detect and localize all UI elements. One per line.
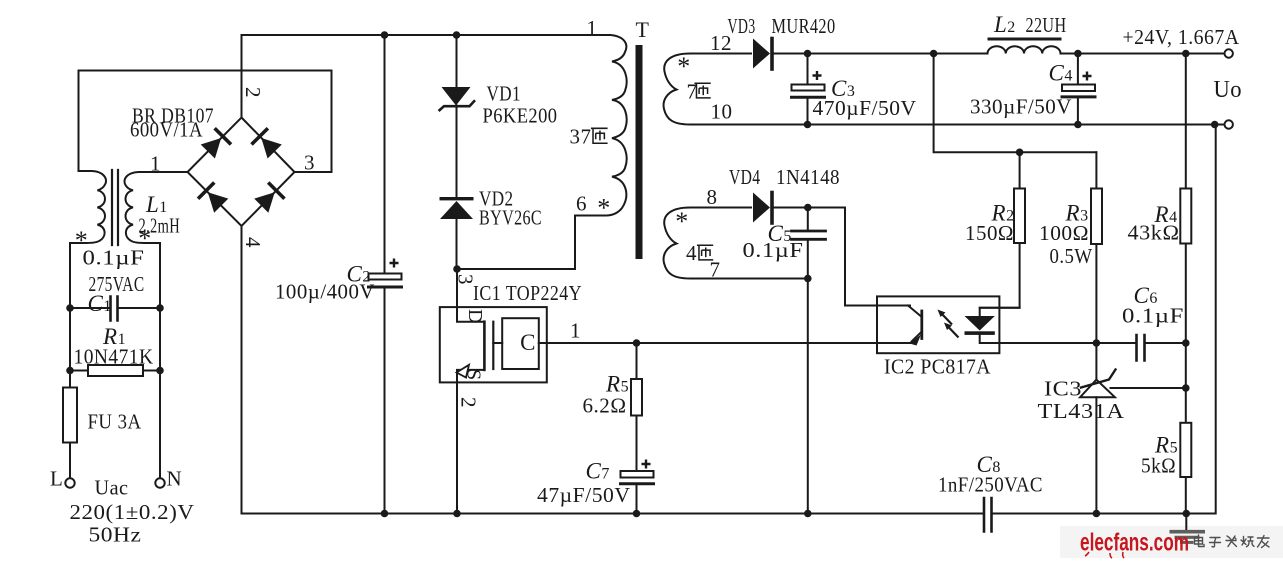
CJK logo char fa	[1226, 536, 1237, 547]
svg-text:37: 37	[570, 125, 592, 149]
plus sign C4	[1083, 72, 1092, 81]
diode VD3 triangle	[753, 39, 770, 69]
wire: IC1 pin1 control wire to optocoupler emitter	[539, 342, 910, 344]
svg-text:C: C	[520, 330, 536, 355]
diode VD3 cathode bar	[770, 39, 774, 70]
bridge diode top-right (pin3 to pin2)	[250, 127, 283, 160]
junction dot TL431 ref node	[1182, 384, 1190, 392]
capacitor C3 riser	[807, 54, 809, 125]
svg-text:*: *	[597, 194, 611, 223]
junction dot C3 top	[804, 50, 812, 58]
IC1 internal source lead	[457, 370, 484, 383]
svg-text:220(1±0.2)V: 220(1±0.2)V	[70, 500, 195, 524]
svg-text:100µ/400V: 100µ/400V	[275, 280, 375, 304]
wire: bias winding pin7 return drop to bottom rail	[807, 279, 809, 514]
IC2 phototransistor collector diagonal	[908, 306, 922, 318]
diode VD4 cathode bar	[770, 193, 774, 224]
CJK logo char dian	[1195, 535, 1205, 547]
TVS diode VD1 triangle	[442, 87, 471, 106]
wire: divider node riser R4 bottom to R5 top	[1185, 343, 1187, 423]
junction dot C4 top	[1074, 50, 1082, 58]
svg-text:MUR420: MUR420	[772, 14, 836, 38]
diode VD2 cathode bar	[440, 197, 474, 200]
svg-text:Uo: Uo	[1214, 77, 1243, 103]
svg-text:47µF/50V: 47µF/50V	[537, 483, 631, 507]
svg-text:L: L	[50, 467, 63, 491]
terminal Uo- circle	[1225, 120, 1233, 128]
transformer T core bar	[636, 45, 643, 259]
junction dot bottom rail IC1 pin2	[453, 510, 461, 518]
svg-text:2: 2	[457, 397, 481, 408]
svg-text:*: *	[75, 226, 89, 255]
resistor R2 body	[1014, 189, 1025, 244]
svg-text:6: 6	[576, 192, 587, 216]
CJK logo char zi	[1210, 538, 1221, 547]
svg-text:Uac: Uac	[95, 476, 129, 500]
IC1 pin2 source drop to bottom rail	[456, 382, 458, 513]
wire: bridge pin4 drop	[241, 226, 243, 514]
wire: primary top rail	[242, 34, 611, 36]
wire: VD1/VD2 clamp branch	[456, 35, 458, 269]
IC3 TL431A triangle	[1080, 380, 1115, 398]
junction dot bottom rail C2	[381, 510, 389, 518]
svg-text:43kΩ: 43kΩ	[1128, 221, 1180, 245]
svg-text:1N4148: 1N4148	[776, 165, 840, 189]
junction dot top rail C2	[381, 31, 389, 39]
junction dot pin6 row IC1 drain	[453, 265, 461, 273]
inductor L1 core lines	[112, 170, 118, 245]
37 turns CJK	[591, 128, 608, 143]
wire: +24V rail from L2 to terminal	[1061, 53, 1225, 55]
capacitor C1 plates	[111, 297, 118, 321]
wire: TL431 reference to divider	[1111, 387, 1186, 389]
svg-text:2: 2	[241, 87, 265, 98]
terminal L circle	[65, 478, 74, 487]
resistor R5 6.2ohm wires	[636, 343, 638, 514]
junction dot R2 top	[1016, 149, 1024, 157]
capacitor C3 negative plate	[792, 96, 825, 99]
svg-text:3: 3	[454, 274, 478, 285]
junction dot Uo- branch	[1211, 121, 1219, 129]
svg-text:22UH: 22UH	[1026, 13, 1067, 37]
wire: bottom primary rail (left of C8)	[242, 513, 984, 515]
CJK logo char you	[1258, 536, 1270, 548]
inductor L2 winding bumps	[988, 46, 1061, 53]
wire: input routing box top-left	[79, 71, 332, 173]
diode VD2 triangle	[440, 201, 473, 219]
resistor R4 body	[1180, 189, 1191, 244]
wire: Uo+ terminal stub	[1224, 53, 1226, 55]
wire: secondary top rail VD3 to L2	[774, 53, 988, 55]
wire: TL431 anode drop	[1095, 397, 1097, 513]
svg-text:4: 4	[686, 241, 697, 265]
svg-text:*: *	[138, 224, 152, 253]
bridge diode top-left (pin1 to pin2)	[200, 127, 233, 160]
svg-text:IC2 PC817A: IC2 PC817A	[884, 355, 991, 379]
IC1 source arrowhead (open)	[457, 365, 470, 378]
resistor R5 6.2ohm body	[631, 379, 642, 416]
IC2 phototransistor base bar	[920, 311, 923, 339]
resistor R3 body	[1091, 189, 1102, 245]
wire: LED anode feed from R2	[980, 308, 1020, 316]
svg-text:1: 1	[570, 319, 581, 343]
inductor L1 common-mode choke left winding	[70, 171, 106, 308]
svg-text:0.1µF: 0.1µF	[743, 238, 804, 262]
svg-text:IC1 TOP224Y: IC1 TOP224Y	[473, 281, 582, 305]
terminal N circle	[155, 478, 164, 487]
svg-text:VD4: VD4	[729, 165, 761, 189]
7 turns CJK	[694, 83, 710, 98]
junction dot C5 bottom pin7	[804, 275, 812, 283]
TVS diode VD1 zener bar	[439, 100, 475, 111]
wire: N line from C1 down to terminal	[159, 308, 161, 478]
junction dot TL431 cathode node	[1093, 339, 1101, 347]
svg-text:150Ω: 150Ω	[965, 221, 1014, 245]
capacitor C8 plates	[984, 498, 992, 532]
svg-text:FU 3A: FU 3A	[88, 410, 142, 434]
IC1 internal gate bar	[492, 322, 494, 369]
junction dot bottom rail bias return	[804, 510, 812, 518]
svg-text:0.5W: 0.5W	[1050, 244, 1093, 268]
svg-text:3: 3	[304, 151, 315, 175]
svg-text:12: 12	[710, 31, 732, 55]
transformer T primary winding 37 turns	[457, 35, 627, 269]
wire: TL431 cathode drop	[1095, 343, 1097, 380]
IC2 phototransistor emitter diagonal	[912, 332, 922, 342]
resistor R5 5k bottom wire	[1185, 477, 1187, 514]
wire: bridge pin2 riser to top rail	[241, 35, 243, 118]
capacitor C7 negative plate	[621, 482, 654, 485]
svg-text:100Ω: 100Ω	[1039, 221, 1089, 245]
svg-text:470µF/50V: 470µF/50V	[813, 96, 917, 120]
plus sign C3	[813, 71, 822, 80]
junction dot R1 right	[156, 367, 164, 375]
svg-text:330µF/50V: 330µF/50V	[970, 95, 1072, 119]
resistor R2 wires	[980, 152, 1020, 307]
IC2 light arrow 1	[938, 310, 953, 325]
transformer T secondary winding 7 turns	[664, 54, 1225, 125]
plus sign C7	[642, 460, 651, 469]
capacitor C4 riser	[1077, 54, 1079, 125]
capacitor C1 wires	[70, 307, 160, 309]
inductor L1 common-mode choke right winding	[125, 172, 188, 308]
ground stub	[1185, 514, 1187, 530]
ground symbol bars	[1170, 532, 1206, 543]
svg-text:elecfans.com: elecfans.com	[1080, 529, 1189, 557]
svg-text:*: *	[675, 207, 689, 236]
svg-text:IC3: IC3	[1044, 377, 1082, 401]
svg-text:T: T	[636, 17, 650, 42]
wire: R2 R3 feed riser from +24 rail	[934, 54, 1097, 153]
varistor R1 wires	[70, 370, 160, 372]
IC2 light arrow 2	[944, 323, 959, 338]
svg-text:VD1: VD1	[487, 82, 522, 106]
svg-text:10: 10	[711, 100, 733, 124]
svg-text:BYV26C: BYV26C	[479, 206, 542, 230]
optocoupler IC2 box	[877, 296, 999, 353]
wire: LED cathode to TL431 node	[980, 335, 1136, 343]
svg-text:1nF/250VAC: 1nF/250VAC	[938, 473, 1043, 497]
svg-text:50Hz: 50Hz	[89, 523, 142, 547]
capacitor C5 riser	[807, 208, 809, 279]
svg-text:600V/1A: 600V/1A	[130, 118, 203, 142]
IC2 emitter arrowhead	[910, 335, 922, 346]
bridge rectifier BR DB107 diamond	[188, 118, 295, 227]
svg-text:1: 1	[150, 152, 161, 176]
capacitor C2 positive plate	[369, 274, 402, 280]
watermark background strip	[1060, 526, 1283, 558]
capacitor C4 negative plate	[1062, 95, 1095, 98]
junction dot feed riser top	[930, 50, 938, 58]
bridge diode bottom-right (pin4 to pin3)	[253, 181, 286, 214]
plus sign C2	[390, 259, 399, 268]
junction dot C1 left	[66, 304, 74, 312]
svg-text:P6KE200: P6KE200	[483, 104, 558, 128]
capacitor C2 riser bottom	[384, 288, 386, 514]
svg-text:+24V, 1.667A: +24V, 1.667A	[1123, 25, 1240, 49]
svg-text:6.2Ω: 6.2Ω	[583, 394, 627, 418]
junction dot R5 6.2 tap	[633, 339, 641, 347]
capacitor C7 positive plate	[621, 471, 654, 478]
svg-text:1: 1	[587, 16, 598, 40]
resistor R5 5k body	[1180, 423, 1191, 477]
capacitor C6 plates	[1137, 335, 1145, 361]
capacitor C4 positive plate	[1062, 85, 1095, 92]
junction dot VD4 cathode C5	[804, 204, 812, 212]
svg-text:0.1µF: 0.1µF	[83, 246, 145, 270]
terminal Uo+ circle	[1225, 49, 1233, 57]
transformer T secondary winding 4 turns (bias)	[664, 208, 808, 279]
wire: VD4 cathode to C5 and optocoupler feed	[774, 208, 910, 306]
diode VD4 triangle	[753, 193, 770, 223]
varistor R1 body	[88, 365, 143, 376]
svg-text:S: S	[463, 369, 485, 381]
svg-text:TL431A: TL431A	[1038, 399, 1125, 423]
IC2 LED triangle	[965, 316, 995, 331]
junction dot C3 bottom	[804, 121, 812, 129]
bridge diode bottom-left (pin4 to pin1)	[197, 181, 230, 214]
IC1 control block box	[502, 318, 539, 369]
svg-text:N: N	[167, 467, 183, 491]
resistor R4 wires	[1185, 54, 1187, 344]
junction dot R4 top	[1182, 50, 1190, 58]
svg-text:D: D	[464, 309, 486, 324]
elecfans logo drip marks	[1085, 552, 1124, 558]
svg-text:4: 4	[241, 237, 265, 248]
junction dot divider node C6	[1182, 339, 1190, 347]
capacitor C3 positive plate	[792, 85, 825, 91]
junction dot bottom rail C7	[633, 510, 641, 518]
resistor R3 wires	[1095, 152, 1097, 343]
wire: IC1 drain pin3 drop	[457, 269, 484, 322]
capacitor C6 right wire	[1146, 342, 1186, 344]
svg-text:5kΩ: 5kΩ	[1141, 454, 1176, 478]
IC1 gate to control connector	[493, 342, 502, 344]
fuse FU body	[63, 388, 77, 443]
wire: bottom secondary rail (right of C8)	[993, 125, 1216, 514]
inductor L2 core bar	[988, 38, 1062, 41]
IC2 LED cathode bar	[965, 331, 995, 335]
wire: L line from C1 down to fuse and terminal	[69, 308, 71, 478]
junction dot R1 left	[66, 367, 74, 375]
capacitor C2 negative plate	[369, 286, 402, 289]
junction dot bottom rail ground	[1183, 510, 1191, 518]
svg-text:8: 8	[707, 185, 718, 209]
svg-text:10N471K: 10N471K	[74, 345, 154, 369]
capacitor C2 riser top	[384, 35, 386, 273]
junction dot bottom rail TL431 anode	[1093, 510, 1101, 518]
junction dot C1 right	[156, 304, 164, 312]
svg-text:*: *	[677, 52, 691, 81]
4 turns CJK	[697, 245, 713, 260]
svg-text:7: 7	[710, 258, 721, 282]
junction dot C4 bottom	[1074, 121, 1082, 129]
CJK logo char shao	[1241, 537, 1254, 547]
capacitor C5 plates	[792, 231, 826, 239]
IC1 internal MOSFET channel bar	[483, 322, 486, 370]
junction dot top rail VD1	[453, 31, 461, 39]
IC3 TL431A cathode bar with ref tail	[1081, 370, 1116, 388]
IC1 TOP224Y outer box	[440, 307, 547, 382]
svg-text:0.1µF: 0.1µF	[1122, 304, 1184, 328]
